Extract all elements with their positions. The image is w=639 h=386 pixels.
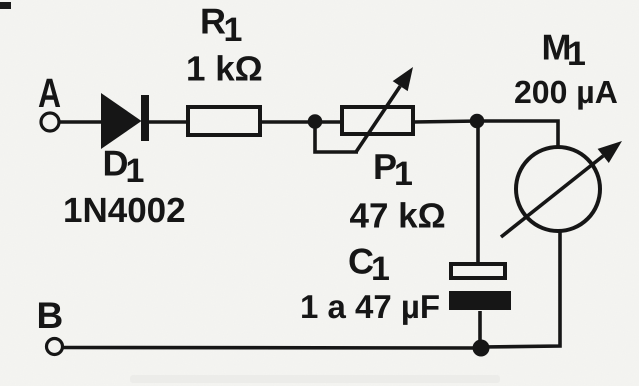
wire P1 to node 2 [413, 121, 480, 122]
junction node 1 [308, 114, 323, 129]
scan smudge bottom [130, 375, 500, 383]
wire meter bottom to rail [480, 231, 560, 347]
potentiometer P1 wiper arrow [356, 67, 413, 152]
svg-text:1: 1 [567, 35, 586, 73]
label M1 [542, 26, 586, 73]
wire A to diode [59, 120, 102, 124]
potentiometer P1 body [342, 107, 413, 134]
wire R1 to node 1 [260, 120, 318, 124]
meter M1 needle [501, 141, 622, 237]
resistor R1 [188, 107, 260, 135]
bottom rail wire B to node 3 [63, 346, 481, 350]
junction node 2 [470, 114, 485, 129]
capacitor C1 top plate [451, 264, 505, 278]
wire C1 to node 3 [478, 311, 482, 347]
wiper return wire [315, 125, 358, 152]
svg-text:1: 1 [224, 11, 243, 49]
capacitor C1 bottom plate [449, 291, 511, 310]
svg-text:1 a 47 µF: 1 a 47 µF [300, 288, 440, 325]
svg-text:1N4002: 1N4002 [63, 191, 186, 230]
svg-text:1: 1 [394, 155, 413, 193]
terminal B [47, 339, 63, 355]
label C1 [348, 241, 390, 289]
svg-text:1 kΩ: 1 kΩ [186, 50, 263, 89]
svg-text:B: B [37, 295, 64, 336]
label P1 [373, 146, 413, 193]
svg-text:R: R [200, 1, 226, 42]
diode D1 [101, 93, 149, 149]
svg-text:A: A [38, 70, 61, 116]
label D1 [103, 143, 145, 191]
wire node 1 to P1 [315, 120, 344, 124]
terminal A [41, 113, 59, 131]
label R1 [200, 1, 242, 50]
svg-text:1: 1 [126, 152, 145, 190]
scan mark top-left corner [0, 2, 11, 9]
svg-text:1: 1 [371, 250, 390, 288]
junction node 3 [473, 340, 490, 357]
wire node 2 to meter top [477, 121, 558, 149]
svg-text:200 µA: 200 µA [514, 74, 618, 110]
wire diode to R1 [148, 120, 190, 124]
wire node 2 down to C1 [476, 125, 480, 264]
meter M1 body [516, 147, 600, 231]
svg-text:47 kΩ: 47 kΩ [350, 197, 446, 236]
